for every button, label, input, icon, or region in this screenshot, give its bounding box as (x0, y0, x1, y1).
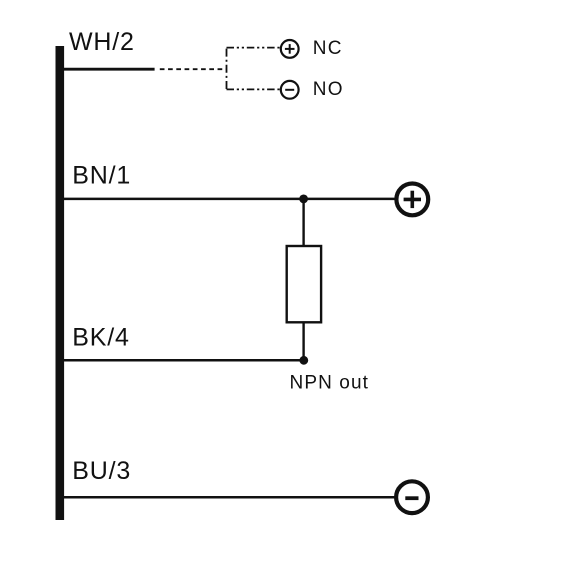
wire resistor bottom lead (302, 322, 304, 360)
wire BU/3 (63, 496, 396, 499)
wire to NO terminal dash-dot-dot (227, 88, 281, 90)
node junction BN/1 to resistor (299, 195, 308, 204)
terminal minus supply (396, 481, 428, 513)
wire WH/2 dashed segment (160, 68, 227, 70)
wire NC/NO branch vertical dash-dot (226, 48, 228, 90)
svg-text:BU/3: BU/3 (72, 457, 131, 485)
sensor supply bus bar (56, 46, 65, 520)
node junction BK/4 to resistor (299, 356, 308, 365)
svg-text:NO: NO (313, 79, 344, 100)
wire WH/2 solid segment (63, 68, 155, 71)
svg-text:WH/2: WH/2 (69, 28, 135, 56)
wire BK/4 (63, 359, 304, 362)
svg-text:BK/4: BK/4 (72, 324, 129, 352)
terminal plus supply (396, 184, 428, 216)
wire resistor top lead (302, 199, 304, 246)
svg-text:NPN out: NPN out (290, 372, 370, 393)
svg-text:BN/1: BN/1 (72, 162, 131, 190)
terminal NC plus circle (281, 40, 299, 58)
terminal NO minus circle (281, 81, 299, 99)
wire BN/1 (63, 198, 396, 201)
resistor load (287, 246, 321, 322)
wire to NC terminal dash-dot-dot (227, 47, 281, 49)
svg-text:NC: NC (313, 38, 343, 59)
